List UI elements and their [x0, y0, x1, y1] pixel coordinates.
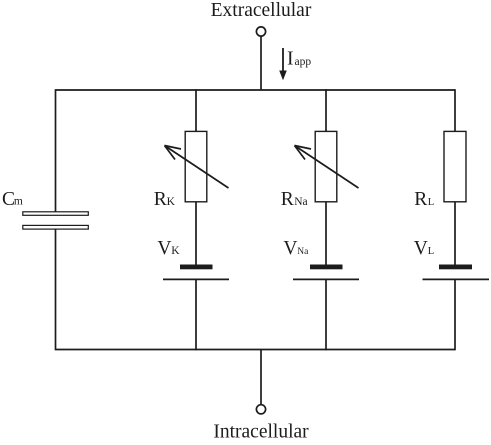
resistor RL	[444, 131, 466, 201]
svg-text:V: V	[283, 238, 297, 259]
resistor RNa (variable)	[315, 131, 337, 201]
wire: top bus	[56, 89, 456, 91]
wire: left branch lower segment	[55, 229, 57, 350]
battery VNa	[293, 265, 359, 280]
svg-text:m: m	[14, 196, 23, 208]
svg-text:R: R	[281, 189, 294, 210]
label RK	[154, 189, 176, 210]
label Cm	[2, 189, 23, 210]
wire: RK to VK battery	[195, 202, 197, 265]
label VL	[414, 238, 434, 259]
svg-text:R: R	[414, 189, 427, 210]
svg-text:Na: Na	[297, 247, 309, 257]
capacitor Cm	[23, 212, 89, 229]
label RL	[414, 189, 434, 210]
label VNa	[283, 238, 309, 259]
arrow across RNa	[295, 146, 359, 189]
node: intracellular terminal	[256, 405, 265, 414]
resistor RK (variable)	[185, 131, 207, 201]
wire: left branch upper segment	[55, 89, 57, 212]
svg-text:Na: Na	[294, 196, 307, 208]
wire: L branch upper segment	[454, 89, 456, 131]
svg-text:Intracellular: Intracellular	[213, 422, 309, 441]
svg-text:I: I	[287, 49, 294, 70]
current arrow Iapp	[279, 48, 287, 80]
label Iapp	[287, 49, 311, 70]
battery VK	[163, 265, 229, 280]
svg-text:V: V	[157, 238, 171, 259]
wire: extracellular terminal to top bus	[260, 36, 262, 90]
svg-text:L: L	[428, 197, 434, 208]
svg-text:K: K	[171, 245, 180, 257]
svg-text:V: V	[414, 238, 428, 259]
wire: bottom bus to intracellular terminal	[260, 350, 262, 405]
svg-text:L: L	[428, 246, 434, 257]
wire: VL to bottom bus	[454, 279, 456, 350]
label VK	[157, 238, 180, 259]
svg-text:Extracellular: Extracellular	[211, 0, 312, 21]
wire: RL to VL battery	[454, 202, 456, 265]
node: extracellular terminal	[256, 27, 265, 36]
svg-text:K: K	[167, 196, 176, 208]
arrow across RK	[165, 146, 229, 189]
wire: Na branch upper segment	[325, 89, 327, 131]
label RNa	[281, 189, 308, 210]
svg-text:R: R	[154, 189, 167, 210]
wire: RNa to VNa battery	[325, 202, 327, 265]
wire: VNa to bottom bus	[325, 279, 327, 350]
battery VL	[423, 265, 490, 280]
wire: VK to bottom bus	[195, 279, 197, 350]
svg-text:app: app	[295, 56, 312, 68]
wire: K branch upper segment	[195, 89, 197, 131]
wire: bottom bus	[56, 349, 456, 351]
